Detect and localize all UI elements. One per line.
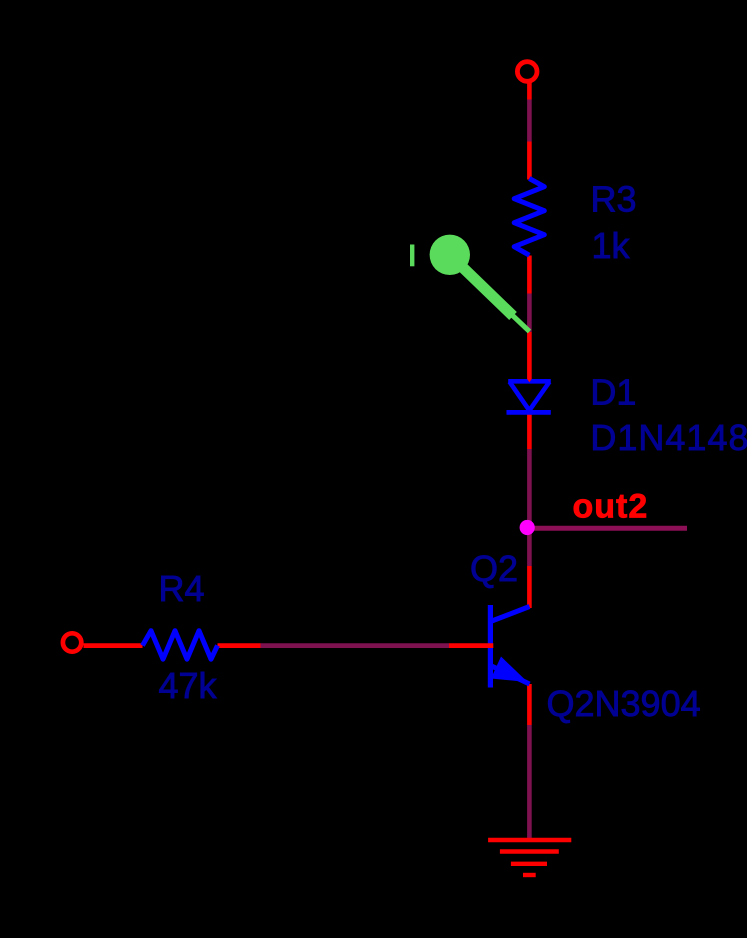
svg-text:R4: R4 — [159, 568, 205, 609]
svg-text:Q2N3904: Q2N3904 — [547, 683, 701, 724]
svg-text:47k: 47k — [159, 665, 218, 706]
svg-text:D1: D1 — [590, 372, 636, 413]
svg-text:D1N4148: D1N4148 — [590, 417, 747, 458]
svg-text:1k: 1k — [592, 225, 631, 266]
svg-text:out2: out2 — [573, 488, 649, 526]
svg-text:Q2: Q2 — [470, 548, 518, 589]
svg-text:R3: R3 — [591, 179, 637, 220]
